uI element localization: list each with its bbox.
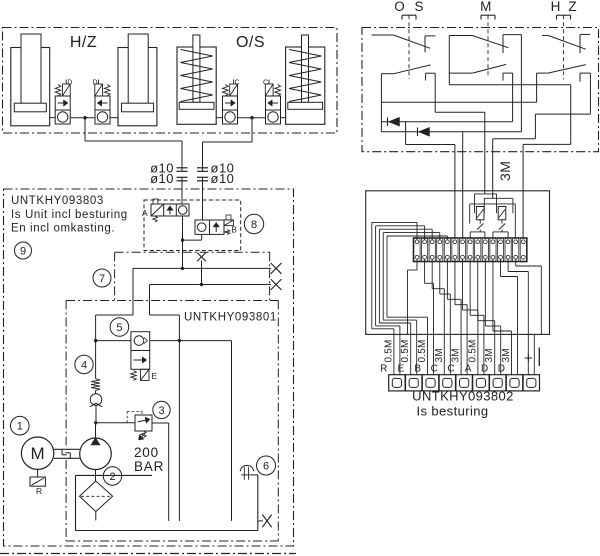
enclosure terminal board — [366, 191, 550, 335]
svg-text:E: E — [398, 364, 405, 375]
svg-text:ø10: ø10 — [211, 171, 235, 186]
suction filter — [80, 470, 113, 521]
label UNTKHY093802 — [412, 389, 514, 419]
label O/S — [236, 34, 265, 51]
plug connector 8 — [506, 375, 522, 391]
balloon 3 — [153, 401, 170, 418]
connector bracket H Z — [557, 15, 571, 79]
balloon 8 — [244, 214, 263, 233]
plug connector 2 — [406, 375, 422, 391]
label O S — [394, 0, 423, 14]
wire h85 chain — [449, 85, 570, 238]
svg-text:9: 9 — [20, 245, 26, 257]
connector bracket M — [481, 15, 495, 77]
node junction H/Z — [83, 116, 86, 119]
svg-text:2: 2 — [109, 471, 115, 483]
relief valve 3 200 BAR — [96, 412, 169, 521]
svg-text:0.5M: 0.5M — [383, 339, 394, 362]
svg-text:5: 5 — [116, 322, 122, 334]
valve D1 pilot check cylinder1 — [55, 80, 72, 125]
pump 2 — [80, 423, 112, 470]
balloon 6 — [257, 456, 276, 475]
svg-text:S: S — [414, 0, 423, 14]
wire M bus — [448, 36, 450, 85]
valve C2 pilot check cylinder4 — [263, 80, 281, 125]
tank — [76, 475, 258, 530]
pipe secondary line — [150, 285, 272, 341]
wire nest left loops — [372, 222, 448, 374]
check valve 4 — [90, 341, 102, 423]
label H Z — [551, 0, 577, 14]
svg-text:3M: 3M — [501, 348, 512, 362]
pipe valve A/B to pressure line — [183, 216, 202, 268]
cylinder H/Z 2 — [118, 34, 157, 126]
svg-text:O/S: O/S — [236, 34, 265, 51]
wire bus left — [380, 74, 382, 132]
diode D1 wire — [381, 73, 512, 126]
label H/Z — [70, 34, 97, 51]
label UNTKHY093803 — [11, 195, 128, 235]
resistor R heater — [30, 469, 45, 496]
switch M row1 — [449, 35, 521, 53]
valve 5 unloading solenoid valve — [131, 332, 158, 381]
switch HZ row2 — [537, 65, 591, 82]
connector bracket O S — [402, 15, 416, 79]
svg-text:1: 1 — [17, 421, 23, 433]
enclosure box cylinders H/Z O/S — [3, 28, 338, 134]
plug connector 7 — [490, 375, 506, 391]
plug connector 9 — [523, 375, 539, 391]
plug X branch up — [197, 253, 206, 285]
balloon 7 — [93, 269, 111, 287]
plug connector 5 — [456, 375, 472, 391]
hose coupling right o10 — [197, 168, 208, 181]
relay K2 — [484, 198, 515, 237]
label 3M — [497, 161, 513, 181]
label UNTKHY093801 — [184, 312, 277, 324]
wire harness terminal-to-cable — [408, 259, 542, 375]
label M — [480, 0, 491, 14]
svg-text:200: 200 — [134, 445, 159, 460]
svg-text:H: H — [551, 0, 561, 14]
svg-text:3M: 3M — [497, 161, 513, 181]
svg-text:B: B — [414, 364, 421, 375]
balloon 5 — [110, 318, 129, 337]
svg-text:0.5M: 0.5M — [417, 339, 428, 362]
cylinder O/S 2 — [286, 35, 325, 124]
svg-text:UNTKHY093802: UNTKHY093802 — [412, 389, 514, 404]
balloon 9 — [15, 242, 32, 259]
wire D1 branch to cx6 — [406, 122, 455, 238]
svg-text:E: E — [152, 371, 158, 381]
svg-text:A: A — [465, 364, 472, 375]
svg-text:3: 3 — [158, 405, 164, 417]
node valve5-out — [178, 339, 181, 342]
svg-text:A: A — [142, 208, 148, 218]
svg-text:M: M — [31, 444, 45, 463]
label cable A 0.5M — [465, 339, 479, 374]
svg-text:UNTKHY093801: UNTKHY093801 — [184, 312, 277, 324]
label cable C 3M — [431, 348, 445, 374]
svg-text:O: O — [394, 0, 405, 14]
svg-text:D: D — [92, 80, 97, 87]
svg-text:4: 4 — [81, 359, 87, 371]
svg-text:B: B — [231, 225, 237, 235]
enclosure valve block 8 — [144, 200, 241, 251]
svg-text:8: 8 — [251, 219, 257, 231]
motor M 1 — [21, 437, 53, 469]
node AB join — [181, 238, 184, 241]
relay K1 — [470, 194, 496, 238]
wire O/S drop line to coupling — [203, 118, 253, 220]
label cable D 3M — [498, 348, 512, 374]
svg-text:Z: Z — [568, 0, 576, 14]
bottom sheet border — [0, 553, 296, 555]
switch HZ row1 — [542, 34, 590, 53]
balloon 2 — [103, 467, 121, 485]
plug connector 4 — [439, 375, 455, 391]
enclosure box UNTKHY093801 — [66, 301, 278, 542]
wire HZ row2 out — [493, 73, 591, 198]
svg-text:C: C — [431, 364, 438, 375]
svg-text:R: R — [36, 486, 42, 496]
svg-text:7: 7 — [99, 273, 105, 285]
valve A solenoid 2-way — [142, 199, 189, 222]
plug connector 3 — [422, 375, 438, 391]
svg-text:3M: 3M — [434, 348, 445, 362]
node secondary-X — [200, 283, 203, 286]
cylinder O/S 1 — [177, 35, 216, 124]
svg-text:R: R — [380, 364, 387, 375]
switch OS row1 — [372, 35, 436, 52]
breather 6 — [240, 465, 258, 530]
plug X port secondary — [271, 279, 282, 290]
relay module frame — [470, 204, 516, 224]
svg-text:D: D — [498, 364, 505, 375]
label cable C 3M — [447, 348, 461, 374]
svg-text:C: C — [263, 80, 268, 87]
pipe pressure line P — [96, 268, 271, 340]
svg-text:M: M — [480, 0, 491, 14]
enclosure box UNTKHY093803 — [4, 189, 294, 546]
pipe unloading line valve5 — [96, 341, 232, 521]
svg-text:6: 6 — [263, 460, 269, 472]
label cable E 0.5M — [398, 339, 412, 374]
hose coupling left o10 — [177, 168, 188, 181]
wire OS row2 out — [435, 73, 485, 194]
valve C1 pilot check cylinder3 — [223, 80, 240, 125]
svg-text:C: C — [235, 80, 240, 87]
svg-text:+: + — [524, 350, 533, 367]
svg-text:En incl omkasting.: En incl omkasting. — [11, 223, 115, 235]
valve D2 pilot check cylinder2 — [92, 80, 110, 125]
valve B solenoid 2-way — [195, 215, 237, 235]
label cable D 3M — [481, 348, 495, 374]
svg-text:BAR: BAR — [134, 459, 164, 474]
plug X port P — [271, 263, 282, 274]
svg-text:UNTKHY093803: UNTKHY093803 — [11, 195, 104, 207]
label o10 left — [150, 161, 174, 187]
switch M row2 — [449, 64, 512, 80]
svg-text:Is besturing: Is besturing — [417, 404, 489, 419]
svg-text:D: D — [481, 364, 488, 375]
svg-text:0.5M: 0.5M — [467, 339, 478, 362]
label o10 right — [211, 161, 235, 187]
node check-to-valve5 — [94, 339, 97, 342]
wire H/Z drop line to coupling — [85, 118, 182, 204]
wire D2 branch to cx7 — [462, 132, 464, 238]
plug X tank drain — [258, 515, 272, 528]
terminal strip X1 — [413, 238, 527, 262]
enclosure electrical box — [362, 28, 599, 152]
wire cylinder manifold O/S — [216, 117, 285, 119]
svg-text:3M: 3M — [451, 348, 462, 362]
svg-text:Is Unit incl besturing: Is Unit incl besturing — [11, 209, 128, 221]
cylinder H/Z 1 — [11, 34, 50, 126]
svg-text:H/Z: H/Z — [70, 34, 97, 51]
svg-text:3M: 3M — [484, 348, 495, 362]
diode D2 wire — [381, 35, 521, 137]
plug connector 6 — [473, 375, 489, 391]
wire cylinder manifold H/Z — [50, 117, 118, 119]
node junction O/S — [250, 116, 253, 119]
svg-text:D: D — [67, 80, 72, 87]
switch OS row2 — [382, 65, 436, 81]
svg-text:ø10: ø10 — [150, 171, 174, 186]
label plus terminal — [524, 348, 539, 368]
balloon 1 — [10, 416, 29, 435]
label 200 BAR — [134, 445, 164, 474]
label cable R 0.5M — [380, 339, 394, 374]
node pressure-X — [181, 267, 184, 270]
enclosure box 7 — [115, 252, 270, 300]
svg-text:C: C — [447, 364, 454, 375]
wire HZ row2 feed — [381, 73, 536, 102]
plug connector 1 — [389, 375, 405, 391]
shaft coupling — [54, 449, 80, 458]
node pump-pressure — [94, 421, 97, 424]
svg-text:0.5M: 0.5M — [400, 339, 411, 362]
balloon 4 — [75, 355, 93, 373]
label cable B 0.5M — [414, 339, 428, 374]
